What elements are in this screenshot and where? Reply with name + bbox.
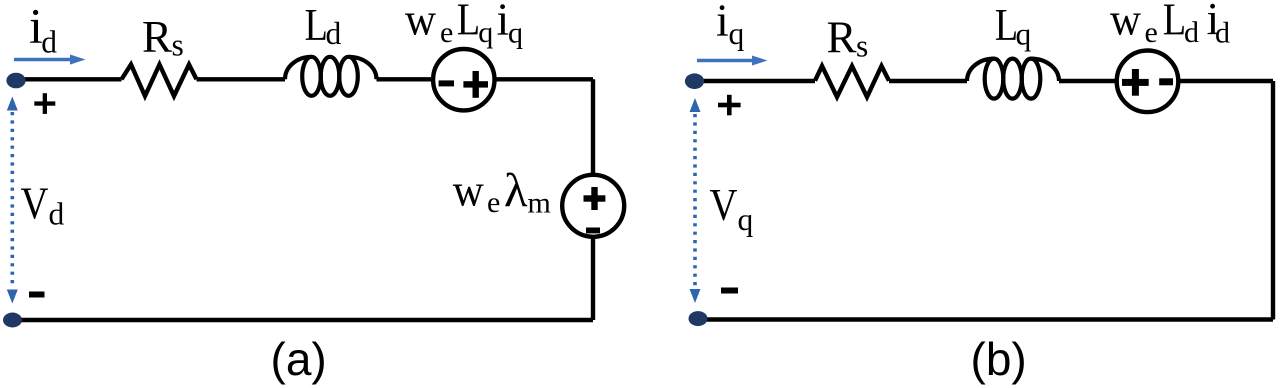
wire (a) right vertical <box>591 79 595 320</box>
svg-text:e: e <box>1145 16 1158 49</box>
svg-text:d: d <box>41 25 57 60</box>
svg-text:V: V <box>21 178 49 229</box>
node (b) bottom-left <box>689 311 708 326</box>
node (b) top-left <box>685 73 704 89</box>
svg-text:V: V <box>710 179 738 230</box>
svg-text:q: q <box>508 17 523 50</box>
svg-text:s: s <box>172 28 184 63</box>
svg-text:L: L <box>1163 0 1186 45</box>
svg-text:m: m <box>528 187 551 220</box>
voltage arrow Vd (a) <box>11 112 15 288</box>
plus terminal (b) <box>718 103 741 108</box>
minus inside source (a) <box>439 80 454 86</box>
wire (b) bottom <box>698 317 1273 321</box>
plus inside source2 (a) <box>584 195 606 201</box>
svg-text:d: d <box>1215 17 1230 50</box>
inductor Ld (a) <box>285 57 377 96</box>
wire (b) right vertical <box>1271 81 1275 320</box>
voltage arrow Vq (b) <box>693 114 697 287</box>
svg-text:q: q <box>1016 17 1032 52</box>
current arrow iq (b) <box>697 59 754 63</box>
plus terminal (a) <box>34 101 55 105</box>
node (a) top-left <box>6 73 25 89</box>
wire (a) bottom <box>12 318 593 322</box>
minus inside source2 (a) <box>586 228 600 234</box>
svg-text:λ: λ <box>504 164 528 217</box>
wire (b) top <box>695 79 1273 83</box>
plus inside source (a) <box>463 81 488 87</box>
minus terminal (a) <box>29 292 45 298</box>
svg-text:q: q <box>738 202 754 237</box>
svg-text:i: i <box>716 0 729 46</box>
svg-text:w: w <box>453 165 485 216</box>
current arrow id (a) <box>14 58 72 62</box>
plus inside source (b) <box>1122 79 1149 86</box>
minus inside source (b) <box>1159 78 1173 85</box>
svg-text:e: e <box>440 16 453 49</box>
svg-text:w: w <box>1110 0 1142 45</box>
node (a) bottom-left <box>3 313 22 328</box>
svg-text:d: d <box>326 16 342 51</box>
svg-text:(b): (b) <box>971 333 1027 385</box>
resistor Rs (a) <box>122 65 197 97</box>
svg-text:L: L <box>457 0 480 45</box>
dependent source weLqiq (a) <box>433 49 494 110</box>
svg-text:s: s <box>856 29 868 64</box>
svg-text:(a): (a) <box>271 333 327 385</box>
svg-text:e: e <box>487 186 500 219</box>
inductor Lq (b) <box>967 59 1059 99</box>
minus terminal (b) <box>721 288 738 294</box>
svg-text:R: R <box>827 12 857 63</box>
resistor Rs (b) <box>815 66 889 97</box>
svg-text:q: q <box>478 16 493 49</box>
source weλm (a) <box>562 175 624 237</box>
dependent source weLdid (b) <box>1117 51 1179 113</box>
svg-text:q: q <box>729 16 745 51</box>
svg-text:w: w <box>405 0 437 45</box>
svg-text:R: R <box>142 11 172 62</box>
svg-text:d: d <box>49 197 65 232</box>
svg-text:d: d <box>1184 16 1199 49</box>
wire (a) top <box>16 77 593 81</box>
svg-text:L: L <box>305 0 328 50</box>
